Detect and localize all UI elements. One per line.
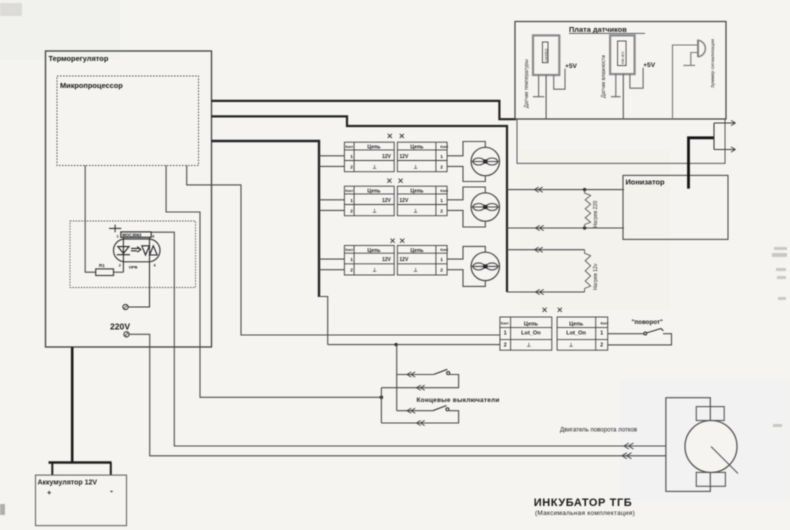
svg-text:Датчик влажности: Датчик влажности: [601, 55, 607, 98]
svg-text:2: 2: [350, 164, 353, 170]
wire to lamp HL3 top: [447, 246, 485, 259]
svg-text:MOC3063: MOC3063: [122, 232, 142, 237]
svg-text:Конт: Конт: [440, 189, 448, 193]
svg-text:Нагрев 12v: Нагрев 12v: [593, 263, 599, 290]
svg-text:-: -: [110, 486, 113, 496]
connector chevron H4: [536, 289, 544, 294]
wire to lamp HL3 bottom: [447, 270, 485, 287]
transistor Q1 optocoupler body: [114, 239, 161, 262]
switch поворот pivot: [644, 332, 647, 335]
box Ионизатор: [623, 175, 728, 239]
svg-text:2: 2: [440, 208, 443, 214]
switch SQ2 input wire: [397, 410, 433, 412]
svg-text:Цепь: Цепь: [367, 145, 380, 151]
node x-marks row 1: [388, 134, 392, 138]
svg-text:1: 1: [440, 154, 443, 160]
wire stubs bus to X1a: [319, 156, 344, 167]
motor M1 gearbox: [666, 398, 710, 492]
switch SQ1 input wire: [397, 374, 434, 376]
svg-text:2: 2: [600, 343, 603, 349]
svg-text:HIH-400: HIH-400: [621, 51, 625, 64]
switch поворот blade: [647, 329, 664, 333]
wire R1 to opto pin2: [114, 271, 124, 273]
resistor R1: [96, 269, 114, 276]
svg-text:12V: 12V: [382, 198, 392, 204]
svg-text:Конт: Конт: [345, 145, 353, 149]
svg-text:1: 1: [350, 154, 353, 160]
svg-text:Аккумулятор 12V: Аккумулятор 12V: [38, 480, 98, 487]
svg-text:Плата датчиков: Плата датчиков: [569, 25, 627, 34]
node x-marks Lot_On pair: [543, 308, 547, 312]
terminal 220V top: [123, 304, 128, 309]
connector X3b right block: [397, 246, 447, 276]
svg-text:⊥: ⊥: [413, 164, 418, 170]
svg-text:12V: 12V: [399, 198, 409, 204]
svg-text:12V: 12V: [382, 154, 392, 160]
svg-text:2: 2: [119, 264, 121, 268]
svg-text:ИНКУБАТОР ТГБ: ИНКУБАТОР ТГБ: [534, 497, 633, 509]
wire heater H2 220V return: [507, 227, 624, 229]
svg-text:12V: 12V: [399, 257, 409, 263]
wire thick feed into ionizer: [689, 138, 715, 189]
svg-text:⊥: ⊥: [372, 268, 377, 274]
svg-text:ОРВ: ОРВ: [129, 264, 138, 269]
svg-text:Цепь: Цепь: [367, 189, 380, 195]
svg-text:⊥: ⊥: [372, 208, 377, 214]
svg-text:Конт: Конт: [440, 248, 448, 252]
box U1 Терморегулятор: [46, 51, 212, 347]
svg-text:Конт: Конт: [345, 189, 353, 193]
svg-text:Цепь: Цепь: [367, 248, 380, 254]
battery terminal right: [110, 463, 112, 476]
battery GB1 Аккумулятор 12V: [36, 475, 127, 525]
svg-text:+5V: +5V: [565, 63, 578, 70]
wire buzzer feed: [673, 45, 698, 119]
svg-text:+5V: +5V: [643, 62, 656, 69]
wire B1 leg2: [545, 75, 547, 119]
motor M1 shaft line: [711, 447, 738, 474]
svg-text:Концевые выключатели: Концевые выключатели: [417, 397, 500, 404]
wire battery feed (thick): [71, 347, 74, 463]
connector chevron H3: [535, 247, 543, 252]
wire to lamp HL2 top: [447, 187, 485, 200]
wire B1 leg1 with bar: [533, 75, 544, 97]
svg-text:1: 1: [117, 235, 119, 239]
wire bus L1 (thick) to sensor board: [212, 101, 517, 119]
wire МП to limit switches junction A: [166, 166, 381, 398]
svg-text:1: 1: [350, 198, 353, 204]
wire bus L2 (thick) to right bus: [212, 116, 508, 292]
wire B2 leg1 with bar: [611, 74, 621, 97]
svg-text:Конт: Конт: [601, 322, 609, 326]
svg-text:2: 2: [350, 208, 353, 214]
svg-text:Зуммер сигнализации: Зуммер сигнализации: [710, 39, 716, 88]
wire rail A: [380, 388, 382, 423]
junction A: [380, 396, 384, 400]
svg-text:+: +: [47, 488, 52, 497]
svg-text:Нагрев 220: Нагрев 220: [593, 201, 599, 228]
svg-text:(Максимальная комплектация): (Максимальная комплектация): [535, 510, 635, 517]
sensor B1 temperature body: [533, 35, 559, 75]
arrow coupling mark: [131, 247, 141, 253]
svg-text:Цепь: Цепь: [410, 145, 423, 151]
motor M1 top cap: [696, 407, 724, 421]
switch SQ2 pivot: [446, 408, 449, 411]
svg-text:2: 2: [440, 268, 443, 274]
svg-text:"поворот": "поворот": [632, 319, 663, 326]
switch SQ2 blade: [433, 406, 447, 411]
motor M1 bottom cap: [696, 472, 725, 486]
svg-text:Конт: Конт: [501, 322, 509, 326]
connector X1b right block: [397, 142, 447, 172]
svg-text:Датчик температуры: Датчик температуры: [524, 59, 530, 108]
svg-text:R1: R1: [99, 263, 105, 268]
svg-text:12V: 12V: [382, 257, 392, 263]
wire heater H3 12V line: [507, 249, 585, 251]
svg-text:Ионизатор: Ионизатор: [626, 178, 666, 187]
connector X4a left block: [500, 317, 552, 350]
connector chevron H2: [536, 225, 544, 230]
switch поворот wire: [608, 334, 672, 345]
svg-text:Цепь: Цепь: [410, 189, 423, 195]
svg-text:Конт: Конт: [440, 145, 448, 149]
connector X2b right block: [397, 186, 447, 216]
junction H1: [583, 188, 586, 191]
box U2 Микропроцессор (dashed): [57, 76, 199, 166]
op-amp U3 MOC3063 label box: [121, 232, 151, 237]
svg-text:Терморегулятор: Терморегулятор: [49, 54, 109, 63]
wire to lamp HL2 bottom: [447, 210, 485, 227]
wire B1 +5V: [554, 69, 565, 90]
node plus mark: [109, 225, 121, 233]
svg-text:Двигатель поворота лотков: Двигатель поворота лотков: [560, 427, 637, 434]
opto dashed enclosure: [70, 221, 196, 288]
wire bus L3 (thick) 12V rail: [212, 141, 320, 297]
svg-text:Lot_On: Lot_On: [521, 331, 541, 337]
connector chevron motor wire top: [624, 443, 633, 449]
svg-text:1: 1: [440, 198, 443, 204]
wire to lamp HL1 bottom: [447, 166, 485, 181]
battery bracket bar: [49, 461, 112, 463]
resistor Нагрев 12v: [585, 250, 591, 292]
wire sensor board underline loop: [517, 119, 725, 163]
svg-text:1: 1: [504, 331, 507, 337]
svg-text:1: 1: [440, 257, 443, 263]
switch SQ2 return wire: [381, 411, 458, 423]
connector chevron H1: [535, 187, 543, 192]
connector chevron motor wire bottom: [622, 453, 631, 459]
svg-text:6: 6: [152, 235, 154, 239]
connector X2a left block: [344, 186, 394, 216]
wire heater H4 12V return: [507, 291, 585, 293]
svg-text:⊥: ⊥: [413, 268, 418, 274]
scan artifacts: [0, 3, 22, 16]
sensor B2 humidity body: [610, 35, 635, 74]
svg-text:Конт: Конт: [345, 248, 353, 252]
wire 220V bottom terminal to motor wire bottom: [129, 334, 666, 456]
buzzer HA1: [697, 40, 699, 58]
wire buzzer ground leg: [683, 53, 698, 66]
svg-text:LM35DZ: LM35DZ: [545, 48, 549, 61]
wire heater H1 220V line: [507, 189, 624, 191]
svg-text:2: 2: [504, 343, 507, 349]
wire stubs bus to X2a: [319, 200, 344, 211]
svg-text:220V: 220V: [110, 322, 130, 332]
wire МП to R1: [85, 166, 96, 273]
wire bus L3 jog down to row2 of Lot_On pair: [319, 297, 500, 345]
node x-marks row 2: [387, 179, 391, 183]
resistor Нагрев 220: [585, 190, 591, 228]
svg-text:Цепь: Цепь: [569, 321, 584, 327]
svg-text:Lot_On: Lot_On: [566, 331, 586, 337]
svg-text:Цепь: Цепь: [410, 248, 423, 254]
wire to lamp HL1 top: [447, 142, 485, 156]
svg-text:1: 1: [350, 257, 353, 263]
lamp HL3: [471, 252, 499, 280]
svg-text:⊥: ⊥: [413, 208, 418, 214]
battery terminal left: [51, 463, 53, 476]
svg-text:⊥: ⊥: [372, 164, 377, 170]
connector double-arrow output: [714, 123, 736, 150]
svg-text:2: 2: [440, 164, 443, 170]
node x-marks row 3: [391, 239, 395, 243]
connector X4b right block: [557, 317, 608, 350]
terminal 220V bottom: [124, 332, 129, 337]
diode LED inside opto: [122, 237, 124, 272]
svg-text:Цепь: Цепь: [524, 321, 539, 327]
wire B2 leg2: [622, 74, 624, 119]
switch SQ1 pivot: [447, 372, 450, 375]
svg-text:2: 2: [350, 268, 353, 274]
junction B: [394, 343, 397, 346]
motor M1 body: [685, 421, 737, 473]
box Плата датчиков: [515, 22, 726, 120]
wire МП to Lot_On connector row1: [187, 166, 500, 336]
svg-text:12V: 12V: [399, 154, 409, 160]
wire opto pin6 to motor wire top: [151, 232, 666, 446]
lamp HL1: [471, 147, 499, 175]
triac inside opto: [128, 237, 149, 307]
junction H2: [583, 226, 586, 229]
paper tint patches: [520, 150, 670, 310]
wire rail B: [396, 345, 398, 411]
wire stubs bus to X3a: [319, 259, 344, 270]
svg-text:Микропроцессор: Микропроцессор: [60, 81, 123, 90]
switch SQ1 return wire: [381, 375, 458, 388]
connector X3a left block: [344, 246, 394, 276]
svg-text:1: 1: [600, 331, 603, 337]
svg-text:⊥: ⊥: [569, 343, 574, 349]
lamp HL2: [471, 193, 499, 221]
switch SQ1 blade: [434, 369, 448, 374]
wire B2 +5V: [630, 68, 643, 88]
connector X1a left block: [344, 142, 394, 172]
svg-text:⊥: ⊥: [527, 343, 532, 349]
